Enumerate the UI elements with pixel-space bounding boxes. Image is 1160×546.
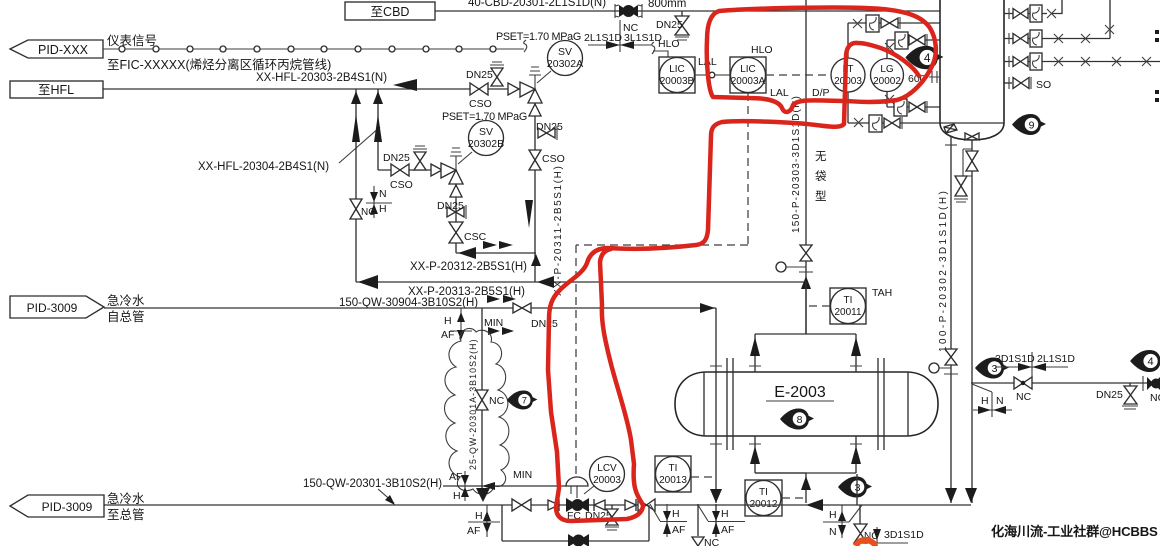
drain valve DN25 below header [605, 505, 619, 530]
svg-text:袋: 袋 [815, 169, 827, 183]
svg-text:H: H [379, 203, 387, 215]
valve on riser [800, 245, 812, 261]
off-page box 至HFL [10, 81, 103, 98]
svg-text:AF: AF [449, 471, 462, 483]
line XX-P-20312-2B5S1(H) [456, 252, 536, 254]
svg-text:H: H [475, 510, 483, 522]
svg-text:H: H [981, 395, 989, 407]
bowtie valve row2 [909, 35, 925, 45]
leader line for 20304 label [339, 127, 380, 163]
marker 9 black [1012, 114, 1046, 135]
reducer right of LCV [594, 499, 605, 511]
instrument circle LG 20002 [871, 59, 904, 92]
cut text marks right edge [1155, 30, 1159, 102]
instrument circle SV 20302B [458, 121, 504, 165]
svg-text:型: 型 [815, 189, 827, 203]
instrument TI 20013 [655, 456, 716, 492]
head flange double lines right [878, 358, 884, 450]
instrument circle SV 20302A [537, 41, 583, 84]
valve CSO on SV-A inlet [469, 83, 492, 110]
svg-text:25-QW-20301A-3B10S2(H): 25-QW-20301A-3B10S2(H) [468, 338, 478, 470]
red meander path [548, 43, 919, 521]
svg-text:PID-3009: PID-3009 [42, 500, 93, 514]
expander on SV-A discharge [529, 104, 541, 116]
svg-text:20003A: 20003A [731, 76, 766, 87]
vertical label 无袋型 [815, 151, 827, 203]
svg-text:SV: SV [558, 46, 572, 58]
svg-text:CSO: CSO [542, 153, 565, 165]
bowtie valve row1 [881, 18, 898, 28]
flow arrow up on riser at 20313 junction [801, 276, 811, 289]
spec break H/N at x842 [823, 505, 862, 538]
E2003 drain corner line [755, 472, 806, 474]
svg-text:无: 无 [815, 151, 827, 163]
bypass line [502, 505, 649, 541]
marker 7 black [507, 391, 538, 410]
flow arrow up on riser x356 [351, 91, 361, 104]
spec break H/AF below header at x487 [467, 505, 500, 537]
svg-text:MIN: MIN [513, 469, 532, 481]
S-valve row4 [869, 115, 882, 132]
marker 8 black [780, 409, 814, 430]
X blind row3 [885, 95, 894, 104]
signal dashed LIC-A to LT [766, 74, 831, 76]
svg-text:PSET=1.70 MPaG: PSET=1.70 MPaG [442, 111, 527, 123]
svg-text:XX-HFL-20303-2B4S1(N): XX-HFL-20303-2B4S1(N) [256, 72, 387, 84]
right vertical drop x951 arrow [945, 488, 957, 503]
valve NC on 25-QW branch [476, 390, 505, 410]
gauge row2 line [887, 39, 940, 41]
svg-text:SV: SV [479, 126, 493, 138]
off-page flag PID-XXX [10, 40, 103, 58]
quench water supply line [104, 307, 716, 309]
svg-text:TI: TI [759, 487, 768, 498]
LT standpipe [847, 23, 849, 123]
marker 3 black right [975, 358, 1009, 379]
svg-text:3D1S1D: 3D1S1D [995, 353, 1035, 365]
safety angle valve SV-B [441, 148, 463, 184]
bypass globe valve black [568, 534, 589, 546]
spec break H/AF drain x667 [650, 504, 687, 537]
svg-text:化海川流-工业社群@HCBBS: 化海川流-工业社群@HCBBS [991, 523, 1158, 539]
instrument TI 20012 [745, 480, 806, 516]
svg-text:4: 4 [924, 52, 931, 65]
bowtie valve row3 [909, 102, 925, 112]
vessel bottom tangent seam [940, 122, 1004, 124]
flow arrow left on 20312 line [458, 247, 476, 259]
svg-text:仪表信号: 仪表信号 [107, 34, 157, 48]
svg-text:20003: 20003 [593, 475, 621, 486]
spec break N/H beside NC valve [366, 186, 392, 218]
SECTION-D middle lines [10, 0, 892, 503]
nozzle stub on dome right [965, 133, 979, 140]
svg-text:XX-HFL-20304-2B4S1(N): XX-HFL-20304-2B4S1(N) [198, 161, 329, 173]
wire riser x378 [377, 89, 379, 170]
marker 3 black at header [838, 477, 872, 498]
svg-text:H: H [453, 490, 461, 502]
bottom nozzle drops [755, 436, 856, 473]
svg-text:20011: 20011 [834, 307, 862, 318]
isolation valve right of LCV [638, 499, 655, 511]
svg-text:20003: 20003 [834, 76, 862, 87]
svg-text:CSO: CSO [390, 179, 413, 191]
svg-text:LIC: LIC [669, 64, 685, 75]
svg-text:NC: NC [489, 395, 505, 407]
gauge row4 line [848, 122, 940, 124]
gauge rowA line [1004, 0, 1062, 22]
vent circle on riser [776, 262, 813, 272]
flange ticks at vessel crossing [710, 366, 722, 444]
node circle [709, 72, 715, 78]
svg-text:20002: 20002 [873, 76, 901, 87]
svg-text:LCV: LCV [597, 463, 617, 474]
svg-text:DN25: DN25 [383, 152, 410, 164]
flow arrow left on HFL line [393, 79, 417, 91]
off-page box 至CBD [345, 2, 435, 20]
flange tick on drain [945, 144, 957, 146]
svg-text:至总管: 至总管 [107, 507, 145, 522]
line to right units y383 [971, 382, 1160, 384]
gauge rowB line [1004, 0, 1114, 47]
valve NC on riser x356 [350, 199, 375, 219]
valve DN25 vent on SV-B inlet [383, 146, 427, 170]
valve DN25 on SV-A discharge [536, 121, 563, 140]
svg-text:NC: NC [1016, 391, 1032, 403]
SECTION-F annotations [548, 8, 1158, 546]
svg-text:H: H [672, 508, 680, 520]
X blind row2 [885, 43, 894, 52]
right vertical drop x971 arrow [965, 488, 977, 503]
X blind row1 [853, 19, 862, 28]
reducer left of LCV [548, 499, 559, 511]
signal dashed LIC-A down [576, 93, 748, 478]
drain line 100-P-20302 from dome [950, 136, 952, 503]
svg-text:20003B: 20003B [660, 76, 695, 87]
red marker loop around LT LG [707, 8, 936, 112]
vessel bottom dome [940, 123, 1004, 140]
svg-text:MIN: MIN [484, 317, 503, 329]
svg-text:HLO: HLO [751, 44, 773, 56]
svg-text:LIC: LIC [740, 64, 756, 75]
svg-text:2L1S1D: 2L1S1D [1037, 353, 1075, 365]
instrument circle LCV 20003 [584, 457, 625, 495]
SECTION-A top-left [10, 34, 806, 309]
svg-text:N: N [829, 526, 837, 538]
svg-text:CSO: CSO [469, 98, 492, 110]
spec break 2L1S1D/3L1S1D [584, 20, 662, 52]
valve NC on y383 line [1014, 377, 1032, 403]
svg-text:AF: AF [672, 524, 685, 536]
valve NC black at right edge [1143, 376, 1160, 404]
wire riser x356 [355, 89, 357, 282]
SECTION-E bottom E-2003 and header [10, 281, 1160, 546]
svg-text:N: N [379, 188, 387, 200]
svg-text:NC: NC [1150, 392, 1160, 404]
SV-20302B inlet line [378, 169, 447, 171]
top nozzle risers [755, 334, 856, 372]
flow arrow up to 20312 junction [531, 254, 541, 266]
svg-text:H: H [444, 315, 452, 327]
reducer before right isolation valve [625, 499, 636, 511]
valve CSC on SV-B discharge [449, 222, 487, 243]
valve NC black on CBD line [615, 4, 642, 34]
svg-text:TAH: TAH [872, 287, 892, 299]
marker 4 black [905, 46, 943, 70]
valve DN25 drain on CBD line [656, 11, 689, 40]
svg-text:3D1S1D: 3D1S1D [884, 529, 924, 541]
svg-text:XX-P-20311-2B5S1(H): XX-P-20311-2B5S1(H) [553, 165, 564, 296]
gauge row1 line [848, 22, 940, 24]
instrument signal line with circles [103, 40, 527, 52]
svg-text:NC: NC [704, 537, 720, 546]
signal line node to LIC-A [715, 74, 730, 76]
svg-text:DN25: DN25 [437, 200, 464, 212]
svg-text:至CBD: 至CBD [371, 5, 410, 19]
return header line [104, 504, 971, 506]
isolation valve on header left of LCV [512, 499, 531, 511]
bowtie valve row4 [884, 118, 900, 128]
slope arrows on 20312 [483, 241, 497, 249]
3D1S1D leader at bottom [873, 527, 924, 543]
flow arrows up top nozzles [750, 337, 760, 356]
SV-B discharge riser x456 [455, 184, 457, 253]
svg-text:D/P: D/P [812, 87, 830, 99]
SV-A discharge riser x536 [534, 103, 536, 282]
reducer on SV-A inlet [508, 83, 519, 95]
drain leg from header x857 [856, 474, 858, 505]
svg-text:PID-XXX: PID-XXX [38, 43, 89, 57]
nozzle ticks bottom [749, 443, 862, 445]
svg-text:N: N [996, 395, 1004, 407]
signal line LIC-B to node [695, 74, 709, 76]
svg-text:150-P-20303-3D1S1D(H): 150-P-20303-3D1S1D(H) [791, 95, 802, 233]
spec break AF/H on MIN line [449, 471, 469, 502]
double block valves on right drain [954, 149, 978, 202]
line XX-P-20313-2B5S1(H) [356, 281, 806, 283]
instrument TI 20011 with TAH [808, 287, 892, 324]
bottom center drop to header [805, 473, 807, 503]
svg-text:100-P-20302-3D1S1D(H): 100-P-20302-3D1S1D(H) [938, 189, 949, 352]
flow arrow left on 20313 at x356 [358, 275, 378, 289]
svg-text:AF: AF [721, 524, 734, 536]
slope arrows after QW label [487, 295, 500, 303]
SECTION-C vessel right [938, 0, 1160, 503]
svg-text:LAL: LAL [770, 87, 789, 99]
flow arrow right at corner [700, 303, 715, 313]
svg-text:至FIC-XXXXX(烯烃分离区循环丙烷管线): 至FIC-XXXXX(烯烃分离区循环丙烷管线) [107, 57, 331, 72]
instrument LIC 20003A [730, 57, 766, 93]
svg-text:急冷水: 急冷水 [107, 491, 145, 506]
vessel shell walls [940, 0, 1004, 123]
svg-text:H: H [829, 509, 837, 521]
svg-text:TI: TI [669, 463, 678, 474]
svg-text:150-QW-20301-3B10S2(H): 150-QW-20301-3B10S2(H) [303, 478, 442, 490]
spec break H/MIN below supply line [441, 308, 514, 341]
top center riser to 150-P [805, 281, 807, 334]
valve on 100-P line [945, 349, 957, 365]
svg-text:AF: AF [467, 525, 480, 537]
gauge row3 line [887, 106, 940, 108]
25-QW branch line through cloud [481, 308, 483, 489]
svg-text:DN25: DN25 [466, 69, 493, 81]
HLO tag at LIC-20003B [652, 38, 680, 57]
drain branch from right nozzle [971, 140, 973, 503]
line XX-HFL-20303-2B4S1(N) [103, 88, 528, 90]
reducer on SV-B inlet [431, 164, 442, 176]
X blind row4 [854, 118, 863, 127]
flow arrow left on MIN line [482, 482, 495, 490]
svg-text:7: 7 [522, 395, 527, 406]
spec break 3D1S1D/2L1S1D right [995, 352, 1075, 378]
svg-text:40-CBD-20301-2L1S1D(N): 40-CBD-20301-2L1S1D(N) [468, 0, 606, 9]
svg-text:DN25: DN25 [531, 318, 558, 330]
spec break H/N below y383 [972, 384, 1012, 417]
svg-text:2L1S1D: 2L1S1D [584, 32, 622, 44]
orange arc bottom [856, 540, 875, 546]
control valve LCV body [566, 477, 589, 522]
flow arrow up on center drop [801, 476, 811, 490]
svg-text:800mm: 800mm [648, 0, 686, 10]
flow arrow left on 20313 at x537 [537, 276, 554, 288]
safety angle valve SV-A [520, 67, 542, 103]
off-page flag PID-3009 supply [10, 293, 145, 324]
flow arrow down on riser x536 [525, 200, 533, 228]
MIN line to LCV [443, 485, 567, 487]
svg-text:HLO: HLO [658, 38, 680, 50]
supply line corner down to E-2003 [715, 308, 717, 503]
nozzle stub on dome left [944, 124, 957, 133]
off-page flag PID-3009 return [10, 491, 145, 522]
marker 4 black right edge [1130, 350, 1160, 372]
label E-2003 [766, 384, 834, 401]
SECTION-B top-center instruments [345, 0, 943, 478]
svg-text:20302A: 20302A [547, 58, 583, 70]
gauge rowD drain SO [1004, 77, 1051, 91]
exchanger E-2003 shell [675, 372, 938, 436]
tube sheet lines [704, 372, 908, 436]
head flange double lines left [727, 358, 733, 450]
svg-text:DN25: DN25 [656, 19, 683, 31]
riser line 150-P-20303 [805, 0, 807, 334]
vent circle on 100-P line [929, 363, 958, 374]
line 40-CBD-20301-2L1S1D(N) [435, 10, 940, 12]
nozzle 600 [908, 71, 940, 85]
svg-text:DN25: DN25 [1096, 389, 1123, 401]
svg-text:AF: AF [441, 329, 454, 341]
valve NC below header x860 [854, 505, 878, 543]
tracing cloud around 25-QW line [445, 328, 510, 494]
nozzle ticks top [749, 365, 862, 367]
svg-text:SO: SO [1036, 79, 1051, 91]
svg-text:至HFL: 至HFL [38, 83, 74, 97]
valve DN25 on SV-B discharge [437, 200, 466, 219]
flow arrows up bottom nozzles [750, 446, 760, 464]
svg-text:PID-3009: PID-3009 [27, 301, 78, 315]
flow arrow big down into header [476, 488, 490, 502]
svg-text:自总管: 自总管 [107, 309, 145, 324]
svg-text:TI: TI [844, 295, 853, 306]
gauge rowC line [1004, 53, 1160, 70]
valve DN25 drain on y383 [1096, 383, 1138, 409]
S-valve row2 [895, 32, 908, 49]
flow arrow up on riser x378 [373, 91, 383, 104]
svg-text:20302B: 20302B [468, 138, 504, 150]
instrument LIC 20003B [659, 57, 695, 93]
flow arrow left on return header [806, 499, 823, 511]
svg-text:150-QW-30904-3B10S2(H): 150-QW-30904-3B10S2(H) [339, 297, 478, 309]
svg-text:9: 9 [1029, 119, 1035, 131]
valve CSO on SV-A discharge [529, 150, 565, 170]
expander on SV-B discharge [450, 185, 462, 197]
instrument circle LT 20003 [831, 58, 865, 92]
valve DN25 on supply line [513, 303, 558, 330]
svg-text:8: 8 [797, 414, 803, 426]
S-valve row3 [894, 99, 907, 116]
svg-text:E-2003: E-2003 [774, 384, 826, 401]
svg-text:3L1S1D: 3L1S1D [624, 32, 662, 44]
valve DN25 vent on SV-A inlet [466, 62, 504, 86]
label 150-QW-20301-3B10S2(H) with leader [303, 478, 442, 505]
NC vent branch x698 [692, 504, 720, 546]
LG standpipe [886, 40, 888, 107]
svg-text:4: 4 [1148, 356, 1154, 368]
svg-text:20013: 20013 [659, 475, 687, 486]
valve CSO on SV-B inlet [390, 164, 413, 191]
svg-text:急冷水: 急冷水 [107, 293, 145, 308]
svg-text:XX-P-20312-2B5S1(H): XX-P-20312-2B5S1(H) [410, 261, 527, 273]
svg-text:H: H [721, 508, 729, 520]
svg-text:LG: LG [880, 64, 894, 75]
S-valve row1 [866, 15, 879, 32]
svg-text:PSET=1.70 MPaG: PSET=1.70 MPaG [496, 31, 581, 43]
drain branch x716 below header [698, 489, 745, 537]
